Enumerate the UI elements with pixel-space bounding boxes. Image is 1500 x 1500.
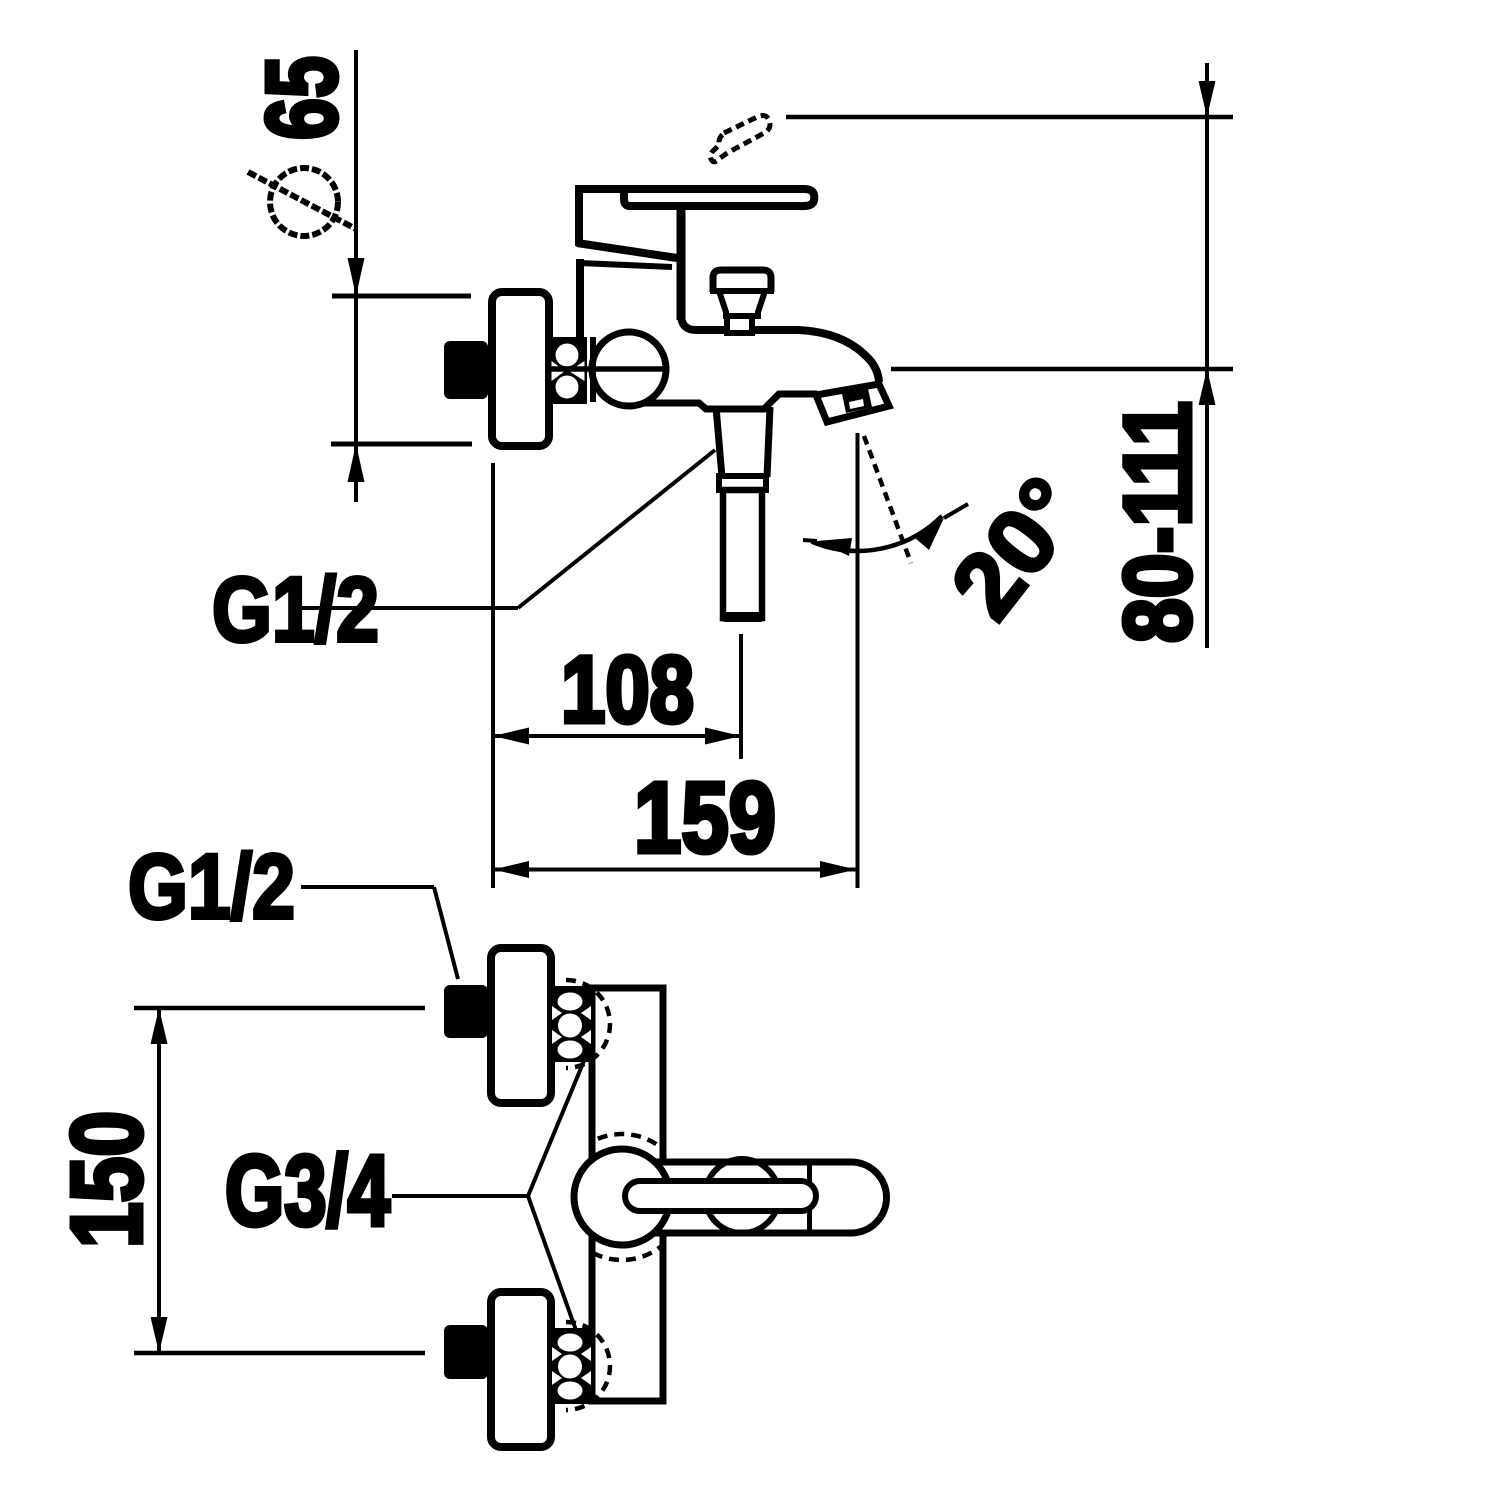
svg-text:65: 65 bbox=[246, 56, 358, 140]
diverter knob cap bottom line bbox=[710, 288, 774, 294]
tick line 150 top bbox=[134, 1006, 425, 1011]
svg-text:108: 108 bbox=[561, 637, 694, 743]
top union oval upper bbox=[558, 993, 583, 1011]
G1/2 leader diagonal bbox=[518, 450, 715, 608]
body plate (plan) bbox=[592, 988, 663, 1401]
arrowhead Ø65 up bbox=[348, 444, 365, 482]
dimension line 159 bbox=[493, 868, 856, 872]
top union ball bbox=[558, 1014, 582, 1038]
svg-text:150: 150 bbox=[51, 1111, 163, 1248]
connector wedge right bbox=[569, 361, 585, 381]
bottom union ball bbox=[558, 1355, 582, 1379]
diverter knob neck bbox=[719, 291, 765, 319]
shower outlet collar bbox=[719, 476, 766, 490]
top hidden G3/4 nut dashed arc bbox=[566, 980, 610, 1068]
diameter symbol slash bbox=[248, 172, 356, 229]
aerator middle black band bbox=[841, 384, 872, 413]
top G1/2 square (plan) bbox=[444, 985, 488, 1038]
handle bottom slant bbox=[577, 243, 677, 258]
top union wedges bbox=[552, 1006, 562, 1020]
tick line flange top bbox=[332, 294, 471, 299]
20 degree arc bbox=[812, 516, 943, 551]
dimension line 150 vertical bbox=[157, 1008, 161, 1353]
svg-text:80-111: 80-111 bbox=[1105, 401, 1211, 643]
connector white ball top bbox=[556, 344, 579, 367]
shower outlet trapezoid left side bbox=[716, 407, 722, 477]
arrowhead 80-111 down bbox=[1199, 81, 1216, 117]
body front edge bbox=[677, 203, 686, 320]
G1/2 label (bottom view) bbox=[128, 836, 295, 938]
reference line spout bottom bbox=[891, 367, 1233, 372]
bottom union wedges bbox=[552, 1347, 562, 1361]
arrowhead 150 down bbox=[151, 1317, 168, 1353]
shower outlet pipe bbox=[723, 490, 762, 618]
tick line 150 bottom bbox=[134, 1351, 425, 1356]
body left edge bbox=[576, 259, 584, 340]
spout bottom edge bbox=[644, 394, 817, 409]
dimension line Ø65 vertical bbox=[354, 50, 358, 444]
svg-text:159: 159 bbox=[634, 762, 776, 874]
extension line left (flange) bbox=[491, 463, 495, 888]
dimension 150 label bbox=[51, 1111, 163, 1248]
arrowhead 20deg left bbox=[817, 538, 852, 556]
arrowhead Ø65 down bbox=[348, 258, 365, 296]
bottom union oval upper bbox=[558, 1334, 583, 1352]
handle left edge bbox=[575, 185, 583, 246]
connector wedge left bbox=[552, 361, 566, 381]
shower outlet pipe cap bbox=[725, 612, 760, 622]
20 degree tilted dashed line bbox=[864, 436, 911, 563]
diverter knob cap bbox=[713, 270, 771, 292]
extension line shower pipe bbox=[739, 634, 743, 759]
arrowhead 159 left bbox=[493, 861, 529, 878]
cartridge circle (plan) bbox=[574, 1149, 670, 1245]
spout top edge bbox=[681, 316, 879, 382]
dimension line 80-111 vertical bbox=[1205, 63, 1209, 648]
aerator white dash bbox=[849, 399, 864, 409]
bottom hidden G3/4 nut dashed arc bbox=[566, 1322, 610, 1410]
20deg arc tail right bbox=[944, 504, 968, 518]
hidden circle dashed around cartridge bbox=[559, 1134, 685, 1260]
lever tip raised position (dashed) bbox=[710, 116, 770, 162]
G1/2 leader horizontal bbox=[301, 606, 518, 610]
arrowhead 159 right bbox=[820, 861, 856, 878]
dimension 108 label bbox=[561, 637, 694, 743]
arrowhead 20deg right bbox=[915, 518, 944, 550]
20deg arc tail left bbox=[803, 540, 817, 541]
G1/2 inlet square (side view) bbox=[444, 341, 488, 399]
ball center line bbox=[551, 366, 667, 372]
G3/4 leader diagonal up bbox=[528, 1056, 586, 1196]
G3/4 leader horizontal bbox=[392, 1194, 528, 1198]
G1/2 bottom leader horizontal bbox=[301, 885, 434, 889]
tick line flange bottom bbox=[331, 442, 472, 447]
ball union connector (side view) bbox=[549, 337, 587, 404]
svg-text:G3/4: G3/4 bbox=[225, 1135, 390, 1247]
dimension line 108 bbox=[493, 734, 741, 738]
dimension 20deg label bbox=[931, 458, 1103, 637]
connector white ball bottom bbox=[556, 376, 579, 399]
G1/2 bottom leader diagonal bbox=[434, 887, 458, 979]
spout outlet aerator (tilted) bbox=[816, 384, 889, 422]
cartridge collar top line bbox=[580, 263, 672, 267]
top ball union column bbox=[551, 986, 592, 1062]
tail below Ø65 bbox=[354, 444, 358, 502]
20 degree pivot vertical line bbox=[856, 433, 860, 888]
bottom union oval lower bbox=[558, 1382, 583, 1400]
arrowhead 108 left bbox=[493, 728, 529, 745]
bottom ball union column bbox=[551, 1328, 592, 1404]
arrowhead 108 right bbox=[705, 728, 741, 745]
svg-text:G1/2: G1/2 bbox=[128, 836, 295, 938]
mixer ball body circle bbox=[592, 332, 666, 406]
G3/4 label bbox=[225, 1135, 390, 1247]
bottom G1/2 square (plan) bbox=[444, 1325, 488, 1379]
wall flange (side view) bbox=[492, 292, 549, 446]
dimension Ø65 label text bbox=[246, 56, 358, 140]
handle screw boss circle bbox=[705, 1159, 779, 1233]
dimension 80-111 label bbox=[1105, 401, 1211, 643]
top union oval lower bbox=[558, 1041, 583, 1059]
bottom wall flange (plan) bbox=[491, 1292, 551, 1447]
dimension 159 label bbox=[634, 762, 776, 874]
G3/4 leader diagonal down bbox=[528, 1196, 577, 1333]
arrowhead 150 up bbox=[151, 1008, 168, 1044]
diameter symbol circle bbox=[270, 168, 338, 236]
handle end cap divider bbox=[807, 1162, 812, 1233]
diverter knob foot bbox=[727, 316, 752, 333]
ball chord line bbox=[590, 337, 596, 402]
G1/2 label (top view) bbox=[212, 559, 379, 661]
shower outlet trapezoid right side bbox=[767, 407, 770, 477]
top wall flange (plan) bbox=[491, 948, 551, 1103]
handle lever (side view) bbox=[576, 189, 814, 206]
arrowhead 80-111 up bbox=[1199, 369, 1216, 405]
reference line handle top bbox=[786, 115, 1233, 120]
handle slot stadium bbox=[625, 1181, 816, 1211]
handle (plan) stadium bbox=[640, 1162, 887, 1233]
